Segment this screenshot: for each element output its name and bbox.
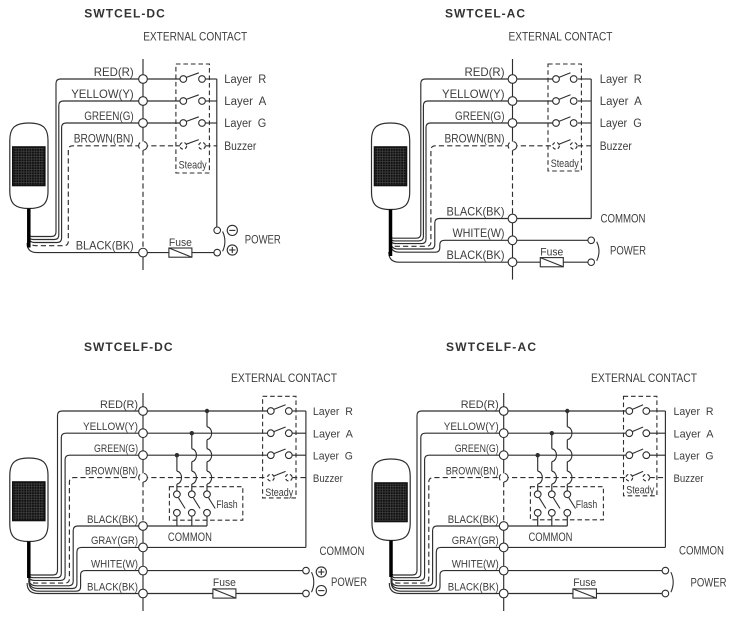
POWER terminal N — [662, 590, 669, 597]
flash contact box — [530, 487, 603, 520]
POWER terminal L — [662, 567, 669, 574]
right bus to COMMON — [590, 79, 592, 219]
contact switch Layer R — [267, 408, 274, 415]
svg-text:Fuse: Fuse — [573, 577, 596, 589]
external contact box with Steady label — [263, 396, 296, 498]
svg-text:Layer A: Layer A — [600, 96, 642, 108]
svg-text:EXTERNAL CONTACT: EXTERNAL CONTACT — [509, 29, 614, 43]
wire WHITE to POWER — [504, 570, 662, 572]
wire Layer A row to contact — [504, 432, 626, 434]
svg-text:COMMON: COMMON — [168, 532, 212, 544]
junction dot Layer A tap — [190, 431, 194, 435]
svg-text:GREEN(G): GREEN(G) — [84, 109, 134, 123]
node RED(R) — [139, 407, 148, 416]
wire GREEN(G) SWTCEL-AC — [391, 123, 513, 244]
svg-text:RED(R): RED(R) — [461, 399, 499, 411]
svg-text:Layer G: Layer G — [313, 450, 353, 462]
wire Layer R row to contact — [143, 410, 268, 412]
node BLACK(BK) common — [499, 522, 508, 531]
wire RED(R) SWTCELF-DC — [29, 411, 143, 575]
node BROWN(BN) — [508, 141, 517, 150]
wire Layer A row to contact — [143, 432, 268, 434]
wire BLACK(BK) common SWTCEL-AC — [391, 219, 513, 250]
wire YELLOW(Y) SWTCEL-AC — [391, 101, 513, 241]
svg-text:BLACK(BK): BLACK(BK) — [447, 204, 505, 218]
wire WHITE(W) SWTCEL-AC — [391, 240, 513, 252]
node BLACK(BK) common — [139, 522, 148, 531]
svg-text:SWTCEL-AC: SWTCEL-AC — [445, 7, 525, 21]
svg-text:RED(R): RED(R) — [100, 399, 138, 411]
node RED(R) — [499, 407, 508, 416]
svg-text:COMMON: COMMON — [320, 546, 365, 558]
svg-text:Layer G: Layer G — [600, 118, 642, 130]
svg-text:WHITE(W): WHITE(W) — [91, 558, 138, 570]
svg-text:POWER: POWER — [245, 235, 281, 247]
node GREEN(G) — [499, 451, 508, 460]
wire BLACK(BK) common SWTCELF-AC — [391, 526, 504, 586]
bus vertical SWTCELF-DC — [142, 393, 144, 482]
wire GRAY(GR) SWTCELF-AC — [391, 547, 504, 588]
polarity symbol plus — [316, 567, 326, 577]
flash contact R — [564, 491, 571, 498]
node BROWN(BN) — [139, 141, 148, 150]
wire YELLOW(Y) SWTCELF-AC — [391, 433, 504, 578]
wire BROWN(BN) SWTCEL-AC — [391, 146, 513, 247]
wire YELLOW(Y) SWTCELF-DC — [29, 433, 143, 578]
wire Layer A row to contact — [513, 100, 553, 102]
polarity symbol plus — [227, 245, 237, 255]
wire Layer R row to contact — [504, 410, 626, 412]
svg-text:Layer A: Layer A — [674, 428, 715, 440]
wire GRAY(GR) SWTCELF-DC — [29, 547, 143, 588]
svg-text:GRAY(GR): GRAY(GR) — [91, 535, 138, 547]
contact switch Layer G — [267, 452, 274, 459]
svg-text:BROWN(BN): BROWN(BN) — [446, 465, 499, 477]
wire WHITE(W) SWTCELF-AC — [391, 571, 504, 592]
flash contact box — [169, 487, 242, 521]
node BLACK(BK) common — [508, 214, 517, 223]
svg-text:POWER: POWER — [610, 245, 646, 257]
svg-text:Steady: Steady — [179, 160, 207, 172]
POWER terminal minus — [303, 590, 310, 597]
wire Buzzer row to contact (dashed) — [504, 477, 626, 479]
svg-text:Fuse: Fuse — [540, 247, 563, 259]
wire Layer G row to contact — [513, 122, 553, 124]
right bus to POWER negative — [216, 79, 218, 227]
node WHITE(W) — [499, 566, 508, 575]
fuse SWTCELF-DC — [213, 589, 236, 598]
wire Layer G row to contact — [143, 122, 180, 124]
svg-text:Buzzer: Buzzer — [224, 141, 256, 153]
svg-text:YELLOW(Y): YELLOW(Y) — [442, 87, 505, 101]
svg-text:YELLOW(Y): YELLOW(Y) — [83, 421, 138, 433]
svg-text:COMMON: COMMON — [529, 532, 573, 544]
svg-text:BROWN(BN): BROWN(BN) — [445, 132, 505, 146]
external contact box with Steady label — [176, 64, 210, 173]
polarity symbol minus — [316, 586, 326, 596]
svg-text:BLACK(BK): BLACK(BK) — [447, 248, 505, 262]
svg-text:COMMON: COMMON — [679, 546, 724, 558]
wire RED(R) SWTCEL-AC — [391, 79, 513, 238]
svg-text:BLACK(BK): BLACK(BK) — [448, 514, 499, 526]
svg-text:Fuse: Fuse — [169, 237, 192, 249]
contact switch Layer A — [180, 98, 187, 105]
junction dot Layer R tap — [205, 409, 209, 413]
svg-text:BLACK(BK): BLACK(BK) — [87, 581, 138, 593]
node BLACK(BK) power — [508, 258, 517, 267]
svg-text:Layer R: Layer R — [600, 74, 642, 86]
contact switch Layer G — [626, 452, 633, 459]
node WHITE(W) — [139, 566, 148, 575]
flash tap column A with crossover hops — [551, 433, 553, 449]
contact switch Layer A — [553, 98, 560, 105]
wire BLACK(BK) power SWTCEL-AC — [389, 252, 541, 262]
contact switch Layer R — [180, 76, 187, 83]
wire GRAY common row — [143, 546, 306, 548]
svg-text:WHITE(W): WHITE(W) — [452, 558, 499, 570]
svg-text:Fuse: Fuse — [213, 577, 236, 589]
contact switch Buzzer — [626, 474, 633, 481]
flash tap column R with crossover hops — [206, 411, 208, 427]
svg-text:GREEN(G): GREEN(G) — [455, 443, 499, 455]
node RED(R) — [508, 75, 517, 84]
wire RED(R) SWTCELF-AC — [391, 411, 504, 575]
wire GRAY common row — [504, 546, 666, 548]
contact switch Layer A — [626, 430, 633, 437]
node GRAY(GR) — [499, 543, 508, 552]
wire BLACK(BK) power SWTCELF-AC — [389, 583, 573, 594]
wire fuse to POWER minus — [236, 593, 303, 595]
svg-text:Flash: Flash — [216, 499, 238, 511]
node RED(R) — [139, 75, 148, 84]
wire Layer A row to contact — [143, 100, 180, 102]
node BLACK(BK) power — [139, 589, 148, 598]
wire fuse to POWER — [563, 261, 588, 263]
svg-text:Steady: Steady — [265, 487, 293, 499]
wire Layer R row to contact — [513, 78, 553, 80]
node WHITE(W) — [508, 236, 517, 245]
svg-text:Layer R: Layer R — [674, 406, 714, 418]
node YELLOW(Y) — [499, 429, 508, 438]
svg-text:BLACK(BK): BLACK(BK) — [87, 514, 138, 526]
POWER terminal minus — [214, 227, 221, 234]
POWER terminal plus — [214, 249, 221, 256]
wire WHITE(W) SWTCELF-DC — [29, 571, 143, 592]
node GREEN(G) — [139, 119, 148, 128]
svg-text:EXTERNAL CONTACT: EXTERNAL CONTACT — [591, 371, 698, 385]
wire BLACK(BK) power SWTCELF-DC — [27, 583, 213, 594]
svg-text:Steady: Steady — [551, 158, 579, 170]
wire Buzzer row to contact (dashed) — [513, 145, 553, 147]
flash contact A — [548, 491, 555, 498]
svg-text:Layer A: Layer A — [224, 96, 266, 108]
svg-text:BROWN(BN): BROWN(BN) — [74, 132, 134, 146]
external contact box with Steady label — [624, 396, 657, 496]
node BLACK(BK) — [139, 248, 148, 257]
external contact box with Steady label — [548, 64, 581, 171]
svg-text:YELLOW(Y): YELLOW(Y) — [444, 421, 499, 433]
contact switch Layer G — [180, 120, 187, 127]
wire Layer G row to contact — [504, 454, 626, 456]
node YELLOW(Y) — [139, 97, 148, 106]
svg-text:GRAY(GR): GRAY(GR) — [452, 535, 499, 547]
wire GREEN(G) SWTCEL-DC — [29, 123, 143, 243]
junction dot Layer G tap — [175, 453, 179, 457]
fuse SWTCELF-AC — [573, 589, 597, 598]
wire Layer G row to contact — [143, 454, 268, 456]
svg-text:WHITE(W): WHITE(W) — [453, 226, 505, 240]
fuse SWTCEL-DC — [169, 248, 192, 257]
contact switch Buzzer — [553, 142, 560, 149]
node YELLOW(Y) — [139, 429, 148, 438]
wire GREEN(G) SWTCELF-DC — [29, 455, 143, 580]
POWER plug arc — [671, 572, 673, 592]
svg-text:YELLOW(Y): YELLOW(Y) — [71, 87, 134, 101]
svg-text:SWTCEL-DC: SWTCEL-DC — [84, 7, 165, 21]
POWER plug arc — [312, 572, 314, 592]
signal tower light unit (SWTCELF-AC) — [372, 459, 410, 577]
svg-text:BLACK(BK): BLACK(BK) — [448, 581, 499, 593]
contact switch Buzzer — [180, 142, 187, 149]
node GRAY(GR) — [139, 543, 148, 552]
svg-text:Layer G: Layer G — [674, 450, 714, 462]
wire WHITE to POWER plus — [143, 570, 303, 572]
bus vertical SWTCEL-AC — [512, 59, 514, 150]
svg-text:GREEN(G): GREEN(G) — [455, 109, 505, 123]
junction dot Layer G tap — [536, 453, 540, 457]
wire BLACK(BK) common SWTCELF-DC — [29, 526, 143, 586]
svg-text:BLACK(BK): BLACK(BK) — [76, 238, 134, 252]
wire YELLOW(Y) SWTCEL-DC — [29, 101, 143, 240]
contact switch Layer R — [553, 76, 560, 83]
polarity symbol minus — [227, 225, 237, 235]
svg-text:Layer R: Layer R — [313, 406, 353, 418]
node BROWN(BN) — [499, 473, 508, 482]
svg-text:EXTERNAL CONTACT: EXTERNAL CONTACT — [143, 29, 248, 43]
wire GREEN(G) SWTCELF-AC — [391, 455, 504, 580]
wire WHITE to POWER — [513, 239, 588, 241]
svg-text:COMMON: COMMON — [601, 214, 646, 226]
bus vertical SWTCEL-DC — [142, 59, 144, 150]
fuse SWTCEL-AC — [540, 258, 563, 267]
POWER terminal N — [588, 259, 595, 266]
contact switch Buzzer — [267, 474, 274, 481]
bus vertical SWTCELF-AC — [503, 393, 505, 482]
flash tap column R with crossover hops — [566, 411, 568, 427]
node GREEN(G) — [139, 451, 148, 460]
svg-text:Flash: Flash — [576, 499, 598, 511]
POWER terminal plus — [303, 567, 310, 574]
flash tap column G with crossover hop — [537, 455, 539, 471]
right bus to COMMON — [664, 411, 666, 547]
wire RED(R) SWTCEL-DC — [29, 79, 143, 237]
svg-text:Buzzer: Buzzer — [600, 141, 632, 153]
POWER plug arc — [223, 232, 225, 252]
junction dot Layer R tap — [565, 409, 569, 413]
POWER terminal L — [588, 237, 595, 244]
contact switch Layer A — [267, 430, 274, 437]
svg-text:Layer A: Layer A — [313, 428, 354, 440]
signal tower light unit (SWTCEL-AC) — [372, 123, 410, 256]
wire BROWN(BN) SWTCELF-DC — [29, 478, 143, 583]
flash tap column G with crossover hop — [176, 455, 178, 471]
svg-text:RED(R): RED(R) — [465, 65, 505, 79]
flash contact G — [534, 491, 541, 498]
svg-text:Buzzer: Buzzer — [313, 473, 343, 485]
svg-text:SWTCELF-AC: SWTCELF-AC — [446, 340, 536, 354]
signal tower light unit (SWTCELF-DC) — [10, 458, 48, 578]
wire Buzzer row to contact (dashed) — [143, 477, 268, 479]
wire BLACK(BK) SWTCEL-DC common return — [27, 243, 169, 253]
svg-text:GREEN(G): GREEN(G) — [94, 443, 138, 455]
svg-text:Layer R: Layer R — [224, 74, 266, 86]
wire flash common collector — [504, 525, 568, 527]
svg-text:EXTERNAL CONTACT: EXTERNAL CONTACT — [231, 371, 338, 385]
junction dot Layer A tap — [550, 431, 554, 435]
svg-text:Buzzer: Buzzer — [674, 473, 704, 485]
flash contact R — [204, 491, 211, 498]
wire fuse to POWER — [597, 593, 663, 595]
node GREEN(G) — [508, 119, 517, 128]
contact switch Layer R — [626, 408, 633, 415]
wire Buzzer row to contact (dashed) — [143, 145, 180, 147]
flash contact A — [188, 491, 195, 498]
right bus to COMMON — [305, 411, 307, 547]
svg-text:POWER: POWER — [691, 577, 727, 589]
wire flash common collector — [143, 525, 207, 527]
svg-text:BROWN(BN): BROWN(BN) — [85, 465, 138, 477]
wire BROWN(BN) SWTCEL-DC — [29, 146, 143, 246]
node YELLOW(Y) — [508, 97, 517, 106]
node BROWN(BN) — [139, 473, 148, 482]
POWER plug arc — [597, 242, 599, 261]
contact switch Layer G — [553, 120, 560, 127]
svg-text:Layer G: Layer G — [224, 118, 266, 130]
wire fuse to POWER plus — [192, 252, 214, 254]
wire BROWN(BN) SWTCELF-AC — [391, 478, 504, 583]
signal tower light unit (SWTCEL-DC) — [10, 123, 48, 248]
wire Layer R row to contact — [143, 78, 180, 80]
svg-text:SWTCELF-DC: SWTCELF-DC — [84, 340, 173, 354]
wire COMMON row — [513, 218, 592, 220]
svg-text:RED(R): RED(R) — [94, 65, 134, 79]
flash tap column A with crossover hops — [191, 433, 193, 449]
svg-text:POWER: POWER — [331, 577, 367, 589]
flash contact G — [174, 491, 181, 498]
svg-text:Steady: Steady — [626, 485, 654, 497]
node BLACK(BK) power — [499, 589, 508, 598]
